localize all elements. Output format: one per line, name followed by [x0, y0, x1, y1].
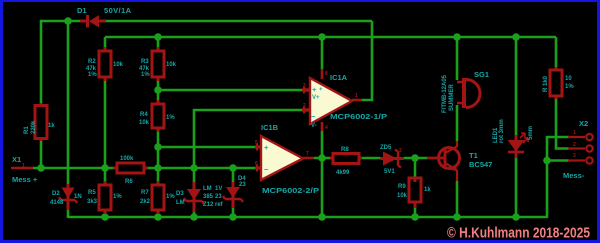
connector X2 — [563, 119, 593, 180]
svg-text:Z12: Z12 — [203, 202, 214, 208]
junction ground x194 — [190, 213, 198, 221]
svg-text:1N: 1N — [74, 194, 82, 200]
svg-text:1k: 1k — [424, 187, 431, 193]
wire x457 rail to buzzer — [456, 37, 459, 80]
svg-text:10k: 10k — [397, 193, 408, 199]
resistor R4 — [139, 100, 175, 132]
svg-text:R 1k0: R 1k0 — [543, 75, 549, 92]
svg-text:rot 3mm: rot 3mm — [499, 119, 505, 143]
svg-text:2k2: 2k2 — [140, 199, 151, 205]
junction ground x105 — [101, 213, 109, 221]
op-amp IC1B — [255, 123, 319, 195]
junction ground x322 — [318, 213, 326, 221]
svg-text:385: 385 — [203, 194, 214, 200]
frame border left — [0, 0, 3, 243]
svg-text:1V: 1V — [215, 186, 222, 192]
wire buzzer to transistor collector — [456, 105, 459, 141]
svg-text:R2: R2 — [88, 59, 96, 65]
resistor R5 — [87, 181, 122, 214]
svg-text:+: + — [312, 85, 317, 94]
svg-text:100k: 100k — [120, 156, 134, 162]
wire X2 pin 1 to ground vertical — [547, 137, 569, 218]
svg-text:1%: 1% — [565, 84, 574, 90]
zener diode ZD1 — [176, 182, 214, 212]
svg-text:1k: 1k — [48, 123, 55, 129]
junction zener node x415 — [411, 154, 419, 162]
svg-text:3k3: 3k3 — [87, 199, 98, 205]
svg-text:2: 2 — [399, 148, 402, 154]
wire IC1A output to top rail — [362, 21, 372, 100]
resistor R9 — [397, 177, 431, 208]
svg-text:LM: LM — [176, 200, 185, 206]
svg-text:D1: D1 — [77, 6, 87, 15]
svg-text:© H.Kuhlmann 2018-2025: © H.Kuhlmann 2018-2025 — [447, 225, 590, 242]
junction x457 supply rail — [453, 33, 461, 41]
svg-text:23: 23 — [215, 194, 222, 200]
svg-text:1%: 1% — [166, 115, 175, 121]
junction measure node x233 — [229, 164, 237, 172]
junction X2 ground x549 — [543, 157, 551, 165]
frame border top — [0, 0, 600, 2]
svg-text:IC1A: IC1A — [330, 73, 348, 82]
svg-text:MCP6002-2/P: MCP6002-2/P — [262, 186, 319, 195]
svg-text:X1: X1 — [12, 155, 21, 164]
svg-text:LM: LM — [203, 186, 212, 192]
junction measure node x41 — [37, 164, 45, 172]
svg-text:+: + — [264, 143, 269, 152]
svg-text:10k: 10k — [166, 62, 177, 68]
resistor R10 — [543, 67, 574, 99]
wire IC1A - input y110 to x194 — [194, 110, 303, 218]
wire R1 bottom to measure line — [40, 140, 43, 168]
svg-text:6: 6 — [255, 161, 258, 167]
zener diode ZD3 — [380, 145, 404, 175]
svg-text:ref: ref — [215, 202, 224, 208]
wire IC1B output y158 — [314, 157, 427, 160]
svg-text:4k99: 4k99 — [336, 170, 350, 176]
zener diode ZD2 — [215, 176, 246, 208]
junction measure node x158 — [154, 164, 162, 172]
wire x415 branch to R9 and ground — [414, 158, 417, 218]
wire x158 branch — [157, 37, 160, 218]
svg-text:Mess-: Mess- — [563, 171, 585, 180]
junction ground x457 — [453, 213, 461, 221]
svg-text:+: + — [319, 87, 323, 93]
svg-text:1%: 1% — [141, 72, 150, 78]
svg-text:7: 7 — [306, 151, 309, 157]
junction ground x158 — [154, 213, 162, 221]
diode D1 — [77, 6, 132, 28]
svg-text:10k: 10k — [139, 120, 150, 126]
wire supply rail y37 — [105, 36, 556, 39]
svg-text:220k: 220k — [31, 120, 37, 134]
wire IC1A + input y90 — [158, 89, 303, 92]
wire vertical x68 from top rail to diode D2 — [67, 21, 70, 184]
wire transistor emitter to ground — [456, 181, 459, 218]
wire top feedback rail y21 right part — [106, 20, 372, 23]
svg-text:3: 3 — [303, 83, 306, 89]
wire measure line y168 right of R6 — [148, 167, 256, 170]
junction measure node x105 — [101, 164, 109, 172]
junction ground x233 — [229, 213, 237, 221]
svg-text:50V/1A: 50V/1A — [104, 6, 132, 15]
wire x105 branch — [104, 37, 107, 218]
svg-text:F/TMB-12A05: F/TMB-12A05 — [442, 74, 448, 113]
svg-text:3: 3 — [573, 153, 576, 159]
svg-text:T1: T1 — [469, 151, 478, 160]
svg-text:R6: R6 — [125, 179, 133, 185]
svg-text:ZD5: ZD5 — [380, 145, 392, 151]
svg-text:8: 8 — [325, 71, 328, 77]
junction x68 top rail — [64, 17, 72, 25]
svg-text:−: − — [311, 112, 316, 121]
junction x322 supply rail — [318, 33, 326, 41]
svg-text:R3: R3 — [141, 59, 149, 65]
svg-text:IC1B: IC1B — [261, 123, 279, 132]
resistor R3 — [139, 47, 177, 81]
wire X2 pin 3 — [547, 159, 569, 162]
svg-text:10: 10 — [565, 76, 572, 82]
svg-text:Mess +: Mess + — [12, 175, 38, 184]
junction node y90 — [154, 86, 162, 94]
junction x158 supply rail — [154, 33, 162, 41]
junction IC1B output x322 — [318, 154, 326, 162]
svg-text:1%: 1% — [88, 72, 97, 78]
svg-text:1: 1 — [573, 130, 576, 136]
diode D2 — [50, 184, 82, 210]
svg-text:1%: 1% — [113, 194, 122, 200]
svg-text:5mm: 5mm — [528, 126, 534, 140]
wire top feedback rail y21 left part — [40, 20, 80, 104]
buzzer SG1 — [442, 70, 489, 113]
junction ground x415 — [411, 213, 419, 221]
svg-text:2: 2 — [303, 103, 306, 109]
svg-text:SUMMER: SUMMER — [449, 84, 455, 111]
wire measure line y168 left of R6 — [33, 167, 113, 170]
svg-text:BC547: BC547 — [469, 160, 492, 169]
wire R10 to X2 pin 2 — [556, 99, 569, 149]
svg-text:10k: 10k — [113, 62, 124, 68]
frame border right — [597, 0, 600, 243]
frame border bottom — [0, 240, 600, 243]
resistor R6 horizontal — [113, 156, 148, 185]
op-amp IC1A — [302, 69, 387, 131]
junction node y147 — [154, 143, 162, 151]
junction measure node x194 — [190, 164, 198, 172]
wire IC1B + input y147 — [158, 146, 256, 149]
svg-text:V-: V- — [311, 123, 317, 129]
wire x516 rail to LED — [515, 37, 518, 135]
wire x233 branch — [232, 168, 235, 218]
svg-text:R5: R5 — [88, 190, 96, 196]
junction ground x516 — [512, 213, 520, 221]
resistor R2 — [86, 47, 124, 81]
svg-text:R9: R9 — [398, 184, 406, 190]
connector pin X1 — [11, 155, 38, 184]
transistor T1 — [427, 141, 492, 181]
junction x516 supply rail — [512, 33, 520, 41]
wire diode D2 bottom — [67, 210, 70, 217]
svg-text:R4: R4 — [140, 112, 148, 118]
svg-text:R1: R1 — [24, 126, 30, 134]
svg-text:4148: 4148 — [50, 200, 64, 206]
resistor R1 — [24, 103, 55, 141]
wire IC1A V- pin to ground rail — [321, 131, 324, 218]
resistor R7 — [140, 181, 175, 214]
svg-text:MCP6002-1/P: MCP6002-1/P — [330, 112, 387, 121]
svg-text:1: 1 — [355, 93, 358, 99]
svg-text:5V1: 5V1 — [384, 169, 395, 175]
svg-text:X2: X2 — [579, 119, 588, 128]
svg-text:23: 23 — [239, 182, 246, 188]
svg-text:2: 2 — [573, 142, 576, 148]
resistor R8 horizontal — [330, 147, 362, 176]
svg-text:R8: R8 — [341, 147, 349, 153]
svg-text:D2: D2 — [52, 191, 60, 197]
LED LED1 — [493, 119, 534, 158]
svg-text:−: − — [264, 165, 269, 174]
wire ground rail y217 — [68, 217, 547, 218]
svg-text:SG1: SG1 — [474, 70, 489, 79]
svg-text:D3: D3 — [176, 191, 184, 197]
svg-text:4: 4 — [325, 125, 328, 131]
wire LED to ground rail — [515, 157, 518, 218]
svg-text:5: 5 — [255, 140, 258, 146]
wire x556 rail corner to R10 — [555, 37, 558, 67]
svg-text:1%: 1% — [166, 194, 175, 200]
svg-text:V+: V+ — [312, 95, 320, 101]
svg-text:R7: R7 — [141, 190, 149, 196]
wire IC1A V+ pin to rail — [321, 37, 324, 69]
